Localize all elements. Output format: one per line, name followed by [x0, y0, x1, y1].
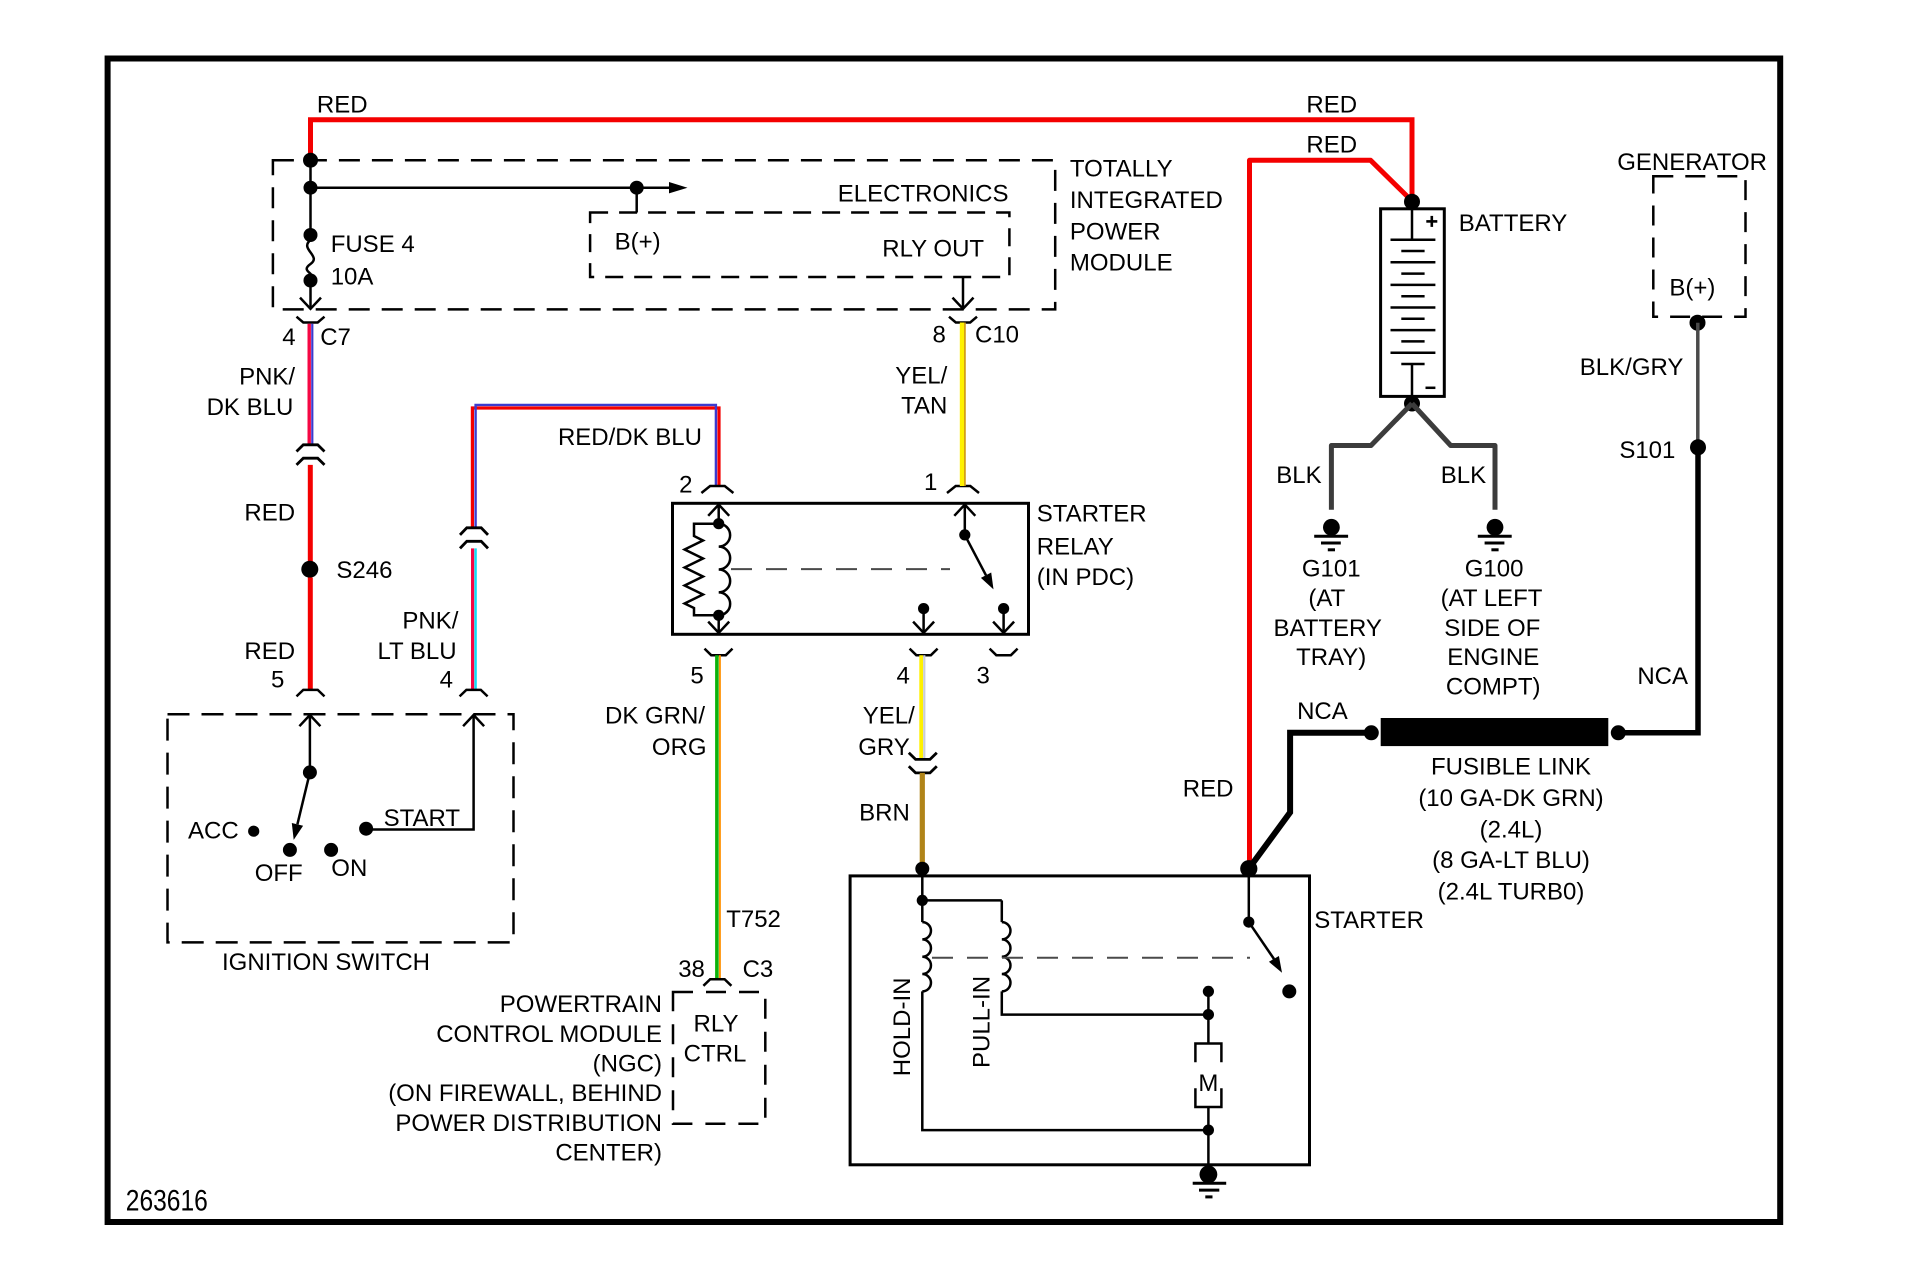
- solenoid contact nodes: [1203, 986, 1214, 1020]
- relay coil pin 2 arrow: [708, 505, 729, 524]
- starter switch contact: [1282, 984, 1296, 998]
- svg-text:CONTROL MODULE: CONTROL MODULE: [436, 1021, 662, 1048]
- svg-text:GENERATOR: GENERATOR: [1617, 149, 1767, 176]
- svg-text:RED/DK BLU: RED/DK BLU: [558, 424, 702, 451]
- svg-text:GRY: GRY: [858, 734, 910, 761]
- svg-text:10A: 10A: [331, 263, 374, 290]
- svg-text:TRAY): TRAY): [1296, 644, 1366, 671]
- svg-text:OFF: OFF: [255, 860, 303, 887]
- ignition switch S1 (dashed box): [168, 714, 514, 976]
- contact OFF: [255, 843, 303, 887]
- wire BLK battery negative to G100: [1412, 404, 1495, 510]
- svg-text:BRN: BRN: [859, 799, 910, 826]
- svg-text:START: START: [384, 805, 461, 832]
- svg-text:ACC: ACC: [188, 818, 239, 845]
- svg-text:G100: G100: [1465, 556, 1524, 583]
- svg-text:(NGC): (NGC): [593, 1051, 662, 1078]
- svg-text:POWER: POWER: [1070, 219, 1161, 246]
- svg-text:B(+): B(+): [615, 229, 661, 256]
- svg-text:T752: T752: [726, 906, 781, 933]
- contact START and jumper to pin 4: [359, 715, 484, 836]
- fuse F4 10A: [300, 188, 415, 309]
- relay pin 2 connector: [679, 471, 733, 498]
- svg-text:RED: RED: [1306, 132, 1357, 159]
- connector C3 pin 38: [678, 956, 773, 986]
- wire RED/DK BLU from relay pin 2: [472, 405, 719, 528]
- relay pin 4 contact with arrow: [913, 603, 934, 633]
- svg-text:ORG: ORG: [652, 734, 707, 761]
- totally integrated power module U1 (dashed box): [273, 156, 1223, 310]
- wire TIPM internal B(+) bus with arrow: [304, 160, 688, 212]
- svg-text:HOLD-IN: HOLD-IN: [889, 978, 916, 1077]
- svg-text:RED: RED: [244, 638, 295, 665]
- svg-text:4: 4: [440, 667, 453, 694]
- pull-in wire to solenoid contact: [1002, 991, 1209, 1014]
- svg-text:STARTER: STARTER: [1314, 907, 1424, 934]
- wire RED from battery + to starter switch: [1183, 132, 1412, 869]
- svg-text:M: M: [1198, 1070, 1218, 1097]
- pull-in coil: [969, 900, 1011, 1068]
- inline connector (wire break) on left column: [297, 445, 325, 465]
- svg-text:(8 GA-LT BLU): (8 GA-LT BLU): [1432, 847, 1590, 874]
- ground G100: [1441, 519, 1543, 701]
- inline connector (wire break) YEL/GRY to BRN: [909, 753, 937, 773]
- relay switch pin 1 arrow: [954, 505, 975, 535]
- svg-text:(AT: (AT: [1308, 585, 1345, 612]
- svg-text:G101: G101: [1302, 556, 1361, 583]
- svg-text:NCA: NCA: [1637, 663, 1688, 690]
- svg-text:2: 2: [679, 471, 692, 498]
- svg-text:263616: 263616: [126, 1185, 208, 1218]
- svg-text:POWER DISTRIBUTION: POWER DISTRIBUTION: [395, 1110, 662, 1137]
- svg-text:RED: RED: [317, 92, 368, 119]
- svg-text:FUSIBLE LINK: FUSIBLE LINK: [1431, 754, 1591, 781]
- svg-text:(10 GA-DK GRN): (10 GA-DK GRN): [1418, 785, 1603, 812]
- wire NCA from S101 to fusible link: [1618, 447, 1698, 733]
- svg-text:PULL-IN: PULL-IN: [969, 976, 996, 1068]
- svg-text:5: 5: [690, 663, 703, 690]
- svg-text:8: 8: [932, 322, 945, 349]
- svg-text:FUSE 4: FUSE 4: [331, 231, 415, 258]
- svg-text:5: 5: [271, 667, 284, 694]
- svg-text:C10: C10: [975, 322, 1019, 349]
- splice S246: [301, 557, 392, 584]
- generator G1 (dashed box): [1617, 149, 1767, 331]
- svg-text:RED: RED: [1306, 92, 1357, 119]
- svg-text:LT BLU: LT BLU: [377, 638, 456, 665]
- svg-text:STARTER: STARTER: [1037, 500, 1147, 527]
- fusible link F2: [1364, 718, 1626, 905]
- svg-text:DK BLU: DK BLU: [207, 394, 294, 421]
- svg-text:BLK: BLK: [1441, 462, 1486, 489]
- wire RED to ignition switch pin 5: [244, 578, 324, 697]
- starter solenoid switch arm: [1243, 869, 1282, 973]
- svg-text:COMPT): COMPT): [1446, 674, 1541, 701]
- powertrain control module U2 (dashed box RLY CTRL): [388, 991, 765, 1167]
- starter relay K1 (box): [673, 500, 1147, 634]
- node: BRN at starter case: [915, 862, 929, 876]
- wire RED to splice S246: [244, 465, 310, 562]
- wire PNK/DK BLU: [207, 324, 313, 445]
- wire BLK/GRY generator to S101: [1580, 323, 1698, 448]
- svg-text:C7: C7: [320, 324, 351, 351]
- ground G101: [1273, 519, 1381, 671]
- svg-text:4: 4: [282, 324, 295, 351]
- svg-text:TAN: TAN: [901, 393, 947, 420]
- svg-text:S246: S246: [336, 557, 392, 584]
- svg-text:PNK/: PNK/: [239, 363, 295, 390]
- svg-text:SIDE OF: SIDE OF: [1444, 615, 1540, 642]
- svg-text:B(+): B(+): [1669, 274, 1715, 301]
- RLY OUT output arrow: [953, 277, 974, 309]
- svg-text:ENGINE: ENGINE: [1447, 644, 1539, 671]
- svg-text:ELECTRONICS: ELECTRONICS: [838, 181, 1009, 208]
- svg-text:CENTER): CENTER): [555, 1140, 662, 1167]
- svg-text:1: 1: [924, 469, 937, 496]
- svg-text:RLY OUT: RLY OUT: [882, 235, 984, 262]
- svg-text:BATTERY: BATTERY: [1273, 615, 1381, 642]
- svg-text:CTRL: CTRL: [684, 1040, 747, 1067]
- svg-text:4: 4: [897, 663, 910, 690]
- wire DK GRN/ORG to PCM: [605, 655, 781, 979]
- wire BLK battery negative to G101: [1276, 404, 1412, 510]
- wire RED from TIPM fuse node to battery +: [311, 92, 1413, 202]
- relay pin 3 contact with arrow: [993, 603, 1014, 633]
- ignition pin 5 arrow: [299, 715, 320, 772]
- starter solenoid linkage (dashed): [932, 957, 1250, 959]
- svg-text:S101: S101: [1619, 437, 1675, 464]
- svg-text:MODULE: MODULE: [1070, 250, 1173, 277]
- svg-text:(2.4L): (2.4L): [1480, 817, 1543, 844]
- svg-text:C3: C3: [743, 956, 774, 983]
- svg-text:3: 3: [976, 663, 989, 690]
- svg-text:RED: RED: [1183, 776, 1234, 803]
- node: motor return junction: [1203, 1125, 1214, 1136]
- svg-text:IGNITION SWITCH: IGNITION SWITCH: [222, 949, 430, 976]
- wire PNK/LT BLU to ignition pin 4: [377, 548, 487, 696]
- connector C7 pin 4: [282, 317, 351, 351]
- svg-text:POWERTRAIN: POWERTRAIN: [500, 991, 662, 1018]
- relay coil pin 5 arrow: [708, 615, 729, 633]
- svg-text:PNK/: PNK/: [402, 607, 458, 634]
- svg-text:BATTERY: BATTERY: [1459, 210, 1567, 237]
- relay pin 4 connector: [897, 649, 938, 690]
- connector C10 pin 8: [932, 317, 1019, 349]
- svg-text:(2.4L TURB0): (2.4L TURB0): [1438, 878, 1585, 905]
- svg-text:(IN PDC): (IN PDC): [1037, 564, 1134, 591]
- wire NCA from fusible link to starter feed: [1249, 698, 1372, 869]
- svg-text:RED: RED: [244, 500, 295, 527]
- relay armature linkage (dashed): [731, 568, 950, 570]
- inline connector (wire break) mid column: [460, 528, 488, 549]
- svg-text:RELAY: RELAY: [1037, 533, 1114, 560]
- svg-text:NCA: NCA: [1297, 698, 1348, 725]
- relay pin 3 connector: [976, 649, 1017, 690]
- electronics block (inner dashed box): [590, 181, 1009, 277]
- svg-text:ON: ON: [331, 855, 367, 882]
- svg-text:BLK: BLK: [1276, 462, 1321, 489]
- hold-in return wire: [922, 991, 1208, 1130]
- svg-text:38: 38: [678, 956, 705, 983]
- starter internal junction node: [917, 869, 1002, 906]
- wire BRN to starter: [859, 773, 922, 869]
- svg-text:TOTALLY: TOTALLY: [1070, 156, 1173, 183]
- contact ON: [324, 843, 367, 882]
- node: RED wire junction on TIPM edge: [303, 153, 318, 168]
- relay switch arm: [959, 529, 993, 589]
- svg-text:DK GRN/: DK GRN/: [605, 703, 705, 730]
- hold-in coil: [889, 900, 931, 1076]
- splice S101: [1619, 437, 1706, 464]
- svg-text:BLK/GRY: BLK/GRY: [1580, 354, 1684, 381]
- svg-text:(ON FIREWALL, BEHIND: (ON FIREWALL, BEHIND: [388, 1080, 662, 1107]
- wire YEL/GRY from relay pin 4: [858, 655, 924, 761]
- svg-text:RLY: RLY: [694, 1011, 739, 1038]
- svg-text:YEL/: YEL/: [895, 363, 947, 390]
- wire YEL/TAN: [895, 323, 965, 487]
- svg-text:YEL/: YEL/: [863, 703, 915, 730]
- svg-text:(AT LEFT: (AT LEFT: [1441, 585, 1543, 612]
- contact ACC: [188, 818, 259, 845]
- ignition switch wiper arm: [292, 765, 317, 840]
- relay pin 5 connector: [690, 649, 732, 690]
- motor M1: [1195, 1015, 1221, 1131]
- relay pin 1 connector: [924, 469, 979, 496]
- svg-text:INTEGRATED: INTEGRATED: [1070, 187, 1223, 214]
- battery B1: [1381, 194, 1568, 412]
- starter motor assembly (box): [850, 876, 1424, 1165]
- relay coil L1 (with resistor element): [685, 518, 731, 621]
- starter case ground: [1193, 1130, 1227, 1197]
- starter switch feed node: [1240, 860, 1257, 877]
